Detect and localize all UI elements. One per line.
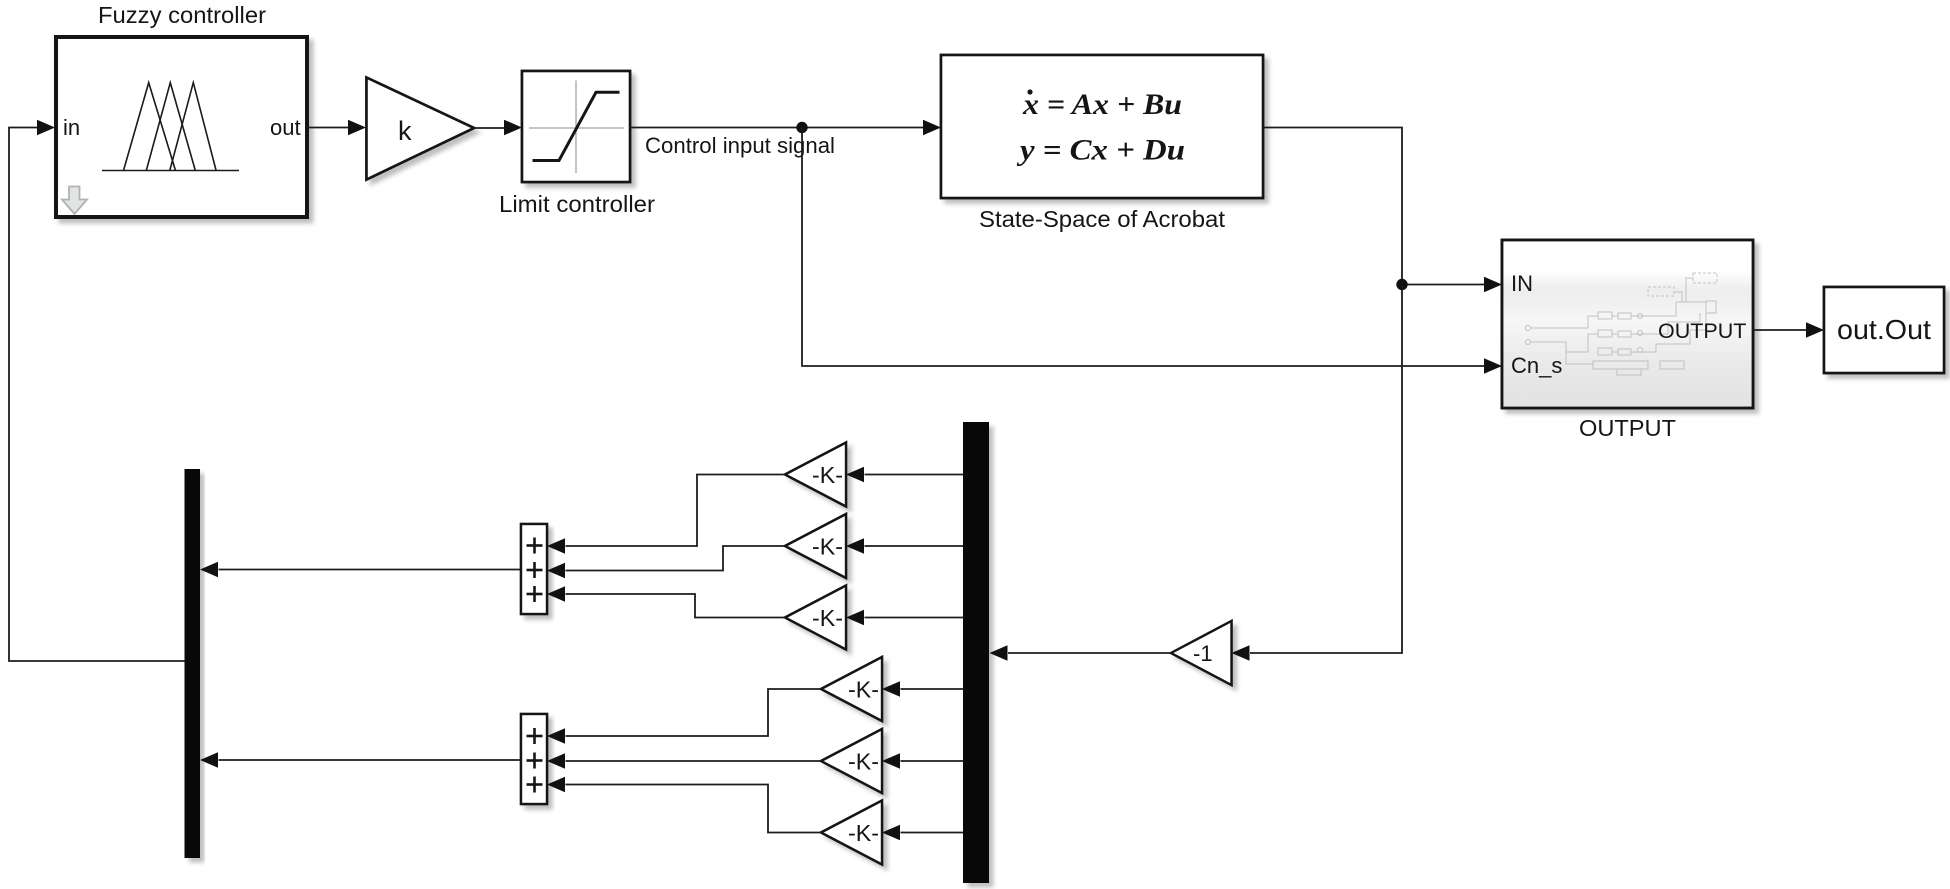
svg-text:IN: IN — [1511, 271, 1533, 296]
wire gain1 to sum1 input1 — [566, 475, 786, 547]
icon fuzzy membership triangles — [102, 83, 239, 171]
svg-text:Cn_s: Cn_s — [1511, 353, 1562, 378]
sum1 input arrows — [547, 538, 565, 602]
junction dot at IN branch — [1396, 279, 1407, 290]
wire OUTPUT to out.Out — [1753, 322, 1824, 338]
wire Gain k to Limit controller — [474, 120, 522, 136]
svg-text:-K-: -K- — [812, 462, 843, 488]
svg-text:OUTPUT: OUTPUT — [1579, 415, 1676, 441]
gain -1 — [1171, 621, 1232, 685]
svg-text:in: in — [63, 115, 80, 140]
wire demux to gain6 — [882, 825, 963, 841]
port label IN — [1511, 271, 1533, 296]
junction dot control signal — [796, 122, 807, 133]
wire demux to gain2 — [846, 538, 963, 554]
label Limit controller — [499, 191, 655, 217]
plus signs sum1 — [527, 538, 543, 603]
gain -K- 1 — [785, 443, 846, 507]
mux bar left — [185, 469, 201, 858]
block out.Out — [1824, 287, 1944, 373]
port label OUTPUT inside — [1658, 319, 1746, 343]
wire gain2 to sum1 input2 — [566, 546, 786, 571]
svg-text:x = Ax + Bu: x = Ax + Bu — [1022, 88, 1182, 121]
wire gain5 to sum2 input2 — [566, 760, 822, 762]
wire feedback from Mux1 to Fuzzy controller in — [9, 120, 185, 661]
svg-text:-K-: -K- — [812, 605, 843, 631]
label State-Space of Acrobat — [979, 206, 1226, 232]
wire State-Space output to corner and IN port — [1263, 128, 1502, 293]
wire -1 gain to Demux bar — [990, 645, 1172, 661]
gain -K- 6 — [821, 801, 882, 865]
gain -K- 3 — [785, 586, 846, 650]
wire Limit controller to State-Space — [630, 120, 941, 136]
wire sum1 output to mux — [200, 562, 521, 578]
block State-Space of Acrobat — [941, 55, 1263, 198]
subsystem thumbnail sketch — [1526, 273, 1718, 375]
label Control input signal — [645, 133, 835, 158]
gain -K- 2 — [785, 514, 846, 578]
svg-text:-K-: -K- — [848, 749, 879, 775]
plus signs sum2 — [527, 728, 543, 793]
svg-text:Control input signal: Control input signal — [645, 133, 835, 158]
sum block 1 — [521, 524, 547, 614]
svg-text:Fuzzy controller: Fuzzy controller — [98, 2, 266, 28]
gain -K- 5 — [821, 729, 882, 793]
label OUTPUT below block — [1579, 415, 1676, 441]
svg-text:-K-: -K- — [848, 677, 879, 703]
wire branch down to -1 gain — [1232, 285, 1403, 661]
svg-text:y = Cx + Du: y = Cx + Du — [1017, 134, 1185, 167]
svg-text:out.Out: out.Out — [1837, 314, 1931, 345]
block Fuzzy controller — [56, 37, 307, 217]
wire gain4 to sum2 input1 — [566, 689, 822, 736]
wire sum2 output to mux — [200, 752, 521, 768]
gain -K- 4 — [821, 657, 882, 721]
svg-text:-K-: -K- — [848, 820, 879, 846]
gain k — [367, 78, 475, 180]
svg-text:OUTPUT: OUTPUT — [1658, 319, 1746, 343]
icon grey download arrow — [62, 187, 87, 215]
sum2 input arrows — [547, 728, 565, 792]
svg-text:-1: -1 — [1193, 641, 1213, 666]
port label Cn_s — [1511, 353, 1562, 378]
block Limit controller (saturation) — [522, 71, 630, 182]
svg-text:State-Space of Acrobat: State-Space of Acrobat — [979, 206, 1226, 232]
wire demux to gain3 — [846, 610, 963, 626]
wire Fuzzy out to Gain k — [307, 120, 366, 136]
svg-text:k: k — [398, 116, 412, 146]
wire demux to gain5 — [882, 753, 963, 769]
wire gain3 to sum1 input3 — [566, 594, 786, 618]
block OUTPUT subsystem — [1502, 240, 1753, 408]
sum block 2 — [521, 714, 547, 804]
wire gain6 to sum2 input3 — [566, 785, 822, 833]
wire demux to gain1 — [846, 467, 963, 483]
svg-text:Limit controller: Limit controller — [499, 191, 655, 217]
demux bar right — [963, 422, 989, 883]
label Fuzzy controller title — [98, 2, 266, 28]
port label out — [270, 115, 301, 140]
wire demux to gain4 — [882, 681, 963, 697]
wire control signal branch to Cn_s port — [802, 128, 1502, 374]
port label in — [63, 115, 80, 140]
svg-text:-K-: -K- — [812, 534, 843, 560]
svg-text:out: out — [270, 115, 301, 140]
